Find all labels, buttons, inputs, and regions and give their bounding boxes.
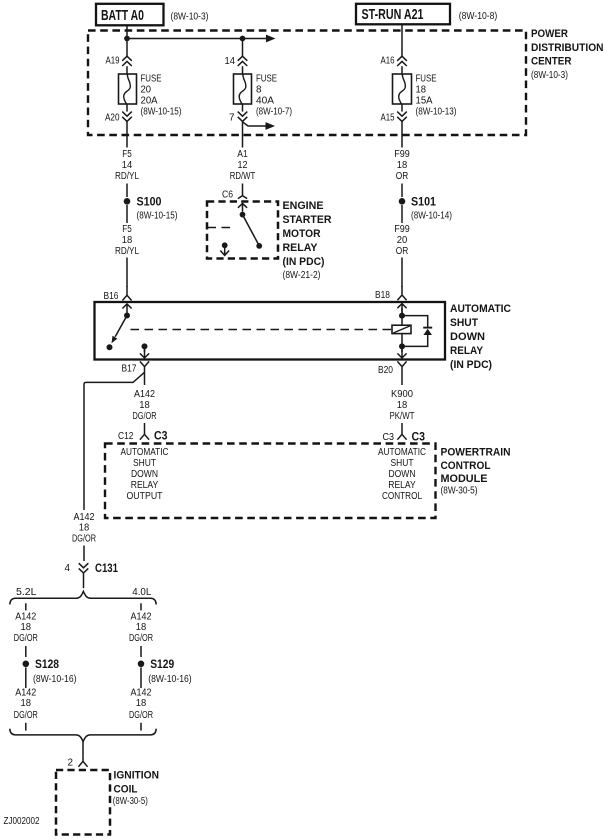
- svg-text:DOWN: DOWN: [450, 331, 485, 343]
- bus wire from BATT feed to fuse 8 column: [127, 38, 243, 40]
- svg-text:14: 14: [225, 56, 236, 67]
- svg-text:(8W-10-15): (8W-10-15): [137, 211, 178, 222]
- svg-text:14: 14: [122, 160, 133, 171]
- svg-text:(8W-10-3): (8W-10-3): [531, 70, 568, 81]
- connector B20 exit arrow and fork: [397, 350, 406, 385]
- ASD switch pivot dot: [124, 313, 130, 319]
- svg-text:B16: B16: [104, 291, 119, 302]
- svg-text:18: 18: [416, 85, 427, 96]
- svg-text:DG/OR: DG/OR: [14, 710, 38, 721]
- fuse F8 element: [239, 74, 246, 104]
- fuse F18 body: [393, 74, 412, 104]
- starter relay switch arm: [243, 215, 259, 245]
- svg-text:DOWN: DOWN: [131, 469, 158, 480]
- svg-text:(IN PDC): (IN PDC): [450, 359, 492, 371]
- fuse F20 body: [119, 74, 137, 104]
- svg-text:CONTROL: CONTROL: [382, 491, 422, 502]
- svg-text:AUTOMATIC: AUTOMATIC: [450, 303, 511, 315]
- connector B16 into ASD relay: [122, 286, 131, 313]
- wire code F5 18 RD/YL: [115, 205, 139, 257]
- svg-text:C6: C6: [222, 190, 233, 201]
- svg-text:(IN PDC): (IN PDC): [283, 256, 325, 268]
- wire A19 to fuse 20: [126, 66, 128, 74]
- connector C3 fork: [397, 434, 406, 439]
- svg-text:B18: B18: [375, 290, 390, 301]
- junction dot at BATT A0 feed: [124, 36, 130, 42]
- svg-text:15A: 15A: [416, 96, 433, 107]
- svg-text:C131: C131: [95, 563, 118, 575]
- wire A16 to fuse 18: [401, 66, 403, 74]
- wire stub to splice S129: [140, 646, 142, 657]
- svg-text:B20: B20: [378, 365, 393, 376]
- wire code K900 18 PK/WT: [390, 389, 415, 422]
- svg-text:POWERTRAIN: POWERTRAIN: [441, 447, 511, 459]
- svg-text:7: 7: [229, 113, 235, 124]
- 4.0L branch wire stub: [140, 603, 142, 610]
- svg-text:S101: S101: [411, 197, 437, 209]
- svg-text:STARTER: STARTER: [283, 214, 332, 226]
- ignition coil dashed box: [56, 770, 110, 835]
- svg-text:(8W-10-16): (8W-10-16): [33, 674, 77, 685]
- wire merge to ignition coil: [82, 741, 84, 755]
- svg-text:RELAY: RELAY: [388, 480, 416, 491]
- connector C12 fork: [140, 434, 149, 439]
- branch arrow to starter feed: [243, 122, 276, 130]
- starter relay ground arrow: [220, 245, 229, 255]
- bus arrow continuing right: [243, 35, 276, 43]
- svg-text:18: 18: [21, 622, 32, 633]
- powertrain control module dashed box: [105, 444, 436, 519]
- svg-text:MODULE: MODULE: [441, 473, 488, 485]
- svg-text:4: 4: [65, 563, 71, 574]
- svg-text:IGNITION: IGNITION: [114, 770, 160, 782]
- svg-text:C12: C12: [118, 431, 134, 442]
- svg-text:5.2L: 5.2L: [16, 587, 37, 598]
- svg-text:A142: A142: [134, 389, 155, 400]
- svg-text:RD/WT: RD/WT: [230, 171, 256, 182]
- splice S128 dot: [23, 661, 30, 668]
- svg-text:20A: 20A: [141, 96, 158, 107]
- svg-text:C3: C3: [383, 432, 395, 443]
- wire to PCM C3: [401, 423, 403, 434]
- svg-text:18: 18: [397, 160, 408, 171]
- branch wire to ignition coil feed: [84, 372, 145, 510]
- svg-text:CENTER: CENTER: [531, 56, 572, 68]
- wire stub to splice S128: [25, 646, 27, 657]
- wire stub below S129: [140, 668, 142, 689]
- svg-text:F5: F5: [122, 149, 132, 160]
- svg-text:18: 18: [397, 400, 408, 411]
- wire to splice S100: [126, 184, 128, 198]
- starter relay label: [283, 200, 332, 268]
- wire code A142 18 DG/OR 5.2L: [14, 612, 38, 645]
- splice S101 dot: [399, 198, 406, 205]
- svg-text:ENGINE: ENGINE: [283, 200, 324, 212]
- svg-text:ZJ002002: ZJ002002: [4, 816, 40, 827]
- splice S100 dot: [124, 198, 131, 205]
- svg-text:A142: A142: [15, 688, 36, 699]
- svg-text:F99: F99: [394, 149, 410, 160]
- svg-text:18: 18: [136, 698, 147, 709]
- svg-text:OUTPUT: OUTPUT: [127, 491, 163, 502]
- svg-text:B17: B17: [122, 364, 137, 375]
- svg-text:(8W-30-5): (8W-30-5): [441, 486, 478, 497]
- ASD coil junction dot bottom: [399, 343, 405, 349]
- svg-text:(8W-30-5): (8W-30-5): [113, 796, 148, 807]
- wire to PCM C12: [144, 423, 146, 434]
- svg-text:FUSE: FUSE: [141, 74, 162, 85]
- ASD relay label: [450, 303, 511, 371]
- svg-text:OR: OR: [396, 171, 409, 182]
- svg-text:A15: A15: [381, 113, 395, 124]
- fuse F8 body: [234, 74, 252, 104]
- wire 14 to fuse 8: [242, 66, 244, 74]
- wire C131 to engine split: [83, 574, 85, 589]
- splice S129 dot: [138, 661, 145, 668]
- wire OR down to ASD relay B18: [401, 258, 403, 288]
- wire B18 dot to coil: [401, 308, 403, 326]
- ASD relay coil: [392, 325, 411, 333]
- wire code A1 12 RD/WT: [230, 149, 256, 182]
- svg-text:RD/YL: RD/YL: [115, 171, 139, 182]
- starter relay switch pivot dot: [240, 212, 246, 218]
- 5.2L wire stub to merge: [25, 723, 27, 731]
- svg-text:(8W-10-8): (8W-10-8): [459, 11, 498, 22]
- svg-text:ST-RUN A21: ST-RUN A21: [362, 7, 424, 23]
- wire contact to B17 exit: [144, 346, 146, 352]
- PDC label POWER DISTRIBUTION CENTER: [531, 28, 604, 68]
- power feed box ST-RUN A21: [356, 4, 450, 25]
- connector A20: [122, 112, 132, 122]
- svg-text:(8W-10-14): (8W-10-14): [411, 211, 452, 222]
- starter relay switch contact dot: [256, 243, 262, 249]
- wire RD/YL down to ASD relay B16: [126, 258, 128, 288]
- starter relay coil feed arrow: [238, 203, 247, 211]
- svg-text:POWER: POWER: [531, 28, 568, 40]
- wire code F99 18 OR: [394, 149, 410, 182]
- svg-text:S128: S128: [35, 659, 60, 671]
- svg-text:(8W-10-7): (8W-10-7): [256, 107, 292, 118]
- wire A15 out of PDC: [401, 122, 403, 148]
- svg-text:A16: A16: [381, 56, 395, 67]
- svg-text:2: 2: [68, 758, 74, 769]
- engine starter motor relay dashed box: [207, 202, 278, 259]
- connector 2 fork: [78, 756, 87, 767]
- starter relay ground contact dot: [222, 242, 228, 248]
- wire to splice S101: [401, 184, 403, 198]
- svg-text:RELAY: RELAY: [283, 242, 319, 254]
- svg-text:RELAY: RELAY: [450, 345, 484, 357]
- svg-text:OR: OR: [396, 246, 409, 257]
- wire to C6 with fork: [238, 184, 247, 199]
- wire pin 7 out of PDC: [242, 122, 244, 148]
- automatic shut down relay box: [95, 302, 446, 360]
- svg-text:(8W-10-13): (8W-10-13): [416, 107, 457, 118]
- svg-text:FUSE: FUSE: [256, 74, 277, 85]
- svg-text:COIL: COIL: [114, 784, 138, 796]
- svg-text:A1: A1: [237, 149, 248, 160]
- wire code A142 18 DG/OR below S129: [129, 688, 153, 722]
- connector 7: [238, 112, 248, 122]
- svg-text:18: 18: [139, 400, 150, 411]
- wire stub below S128: [25, 668, 27, 689]
- svg-text:FUSE: FUSE: [416, 74, 437, 85]
- PCM label POWERTRAIN CONTROL MODULE: [441, 447, 511, 486]
- connector A15: [397, 112, 407, 122]
- svg-text:DG/OR: DG/OR: [129, 633, 153, 644]
- connector C131 chevrons: [79, 563, 89, 573]
- Power Distribution Center dashed box: [88, 31, 526, 136]
- svg-text:C3: C3: [412, 432, 426, 444]
- ASD coil junction dot top: [399, 313, 405, 319]
- ASD switch open contact dot: [107, 344, 113, 350]
- wire code A142 18 DG/OR below S128: [14, 688, 38, 722]
- svg-text:SHUT: SHUT: [450, 317, 478, 329]
- svg-text:K900: K900: [391, 389, 413, 400]
- svg-text:8: 8: [256, 85, 262, 96]
- wire fuse F18 to A15: [401, 104, 403, 112]
- connector 14: [238, 56, 248, 66]
- wire code A142 18 DG/OR at B17: [133, 389, 157, 422]
- svg-text:A19: A19: [106, 56, 120, 67]
- wire fuse F20 to A20: [126, 104, 128, 112]
- svg-text:18: 18: [79, 523, 90, 534]
- 4.0L wire stub to merge: [140, 723, 142, 731]
- wire code F5 14 RD/YL: [115, 149, 139, 182]
- connector A16: [397, 56, 407, 66]
- wire code A142 18 DG/OR at coil feed: [72, 512, 96, 545]
- starter relay linkage dashes: [208, 227, 232, 229]
- branch merge brace: [10, 729, 156, 742]
- svg-text:BATT A0: BATT A0: [101, 8, 144, 24]
- wire fuse F8 to pin 7: [242, 104, 244, 112]
- svg-text:PK/WT: PK/WT: [390, 411, 415, 422]
- svg-text:DG/OR: DG/OR: [133, 411, 157, 422]
- fuse F20 element: [124, 74, 131, 104]
- svg-text:A142: A142: [131, 612, 152, 623]
- svg-text:DG/OR: DG/OR: [14, 633, 38, 644]
- svg-text:DG/OR: DG/OR: [72, 534, 96, 545]
- svg-text:12: 12: [238, 160, 248, 171]
- ASD output contact dot: [142, 343, 148, 349]
- svg-text:4.0L: 4.0L: [132, 587, 151, 598]
- svg-text:AUTOMATIC: AUTOMATIC: [378, 447, 426, 458]
- svg-text:18: 18: [136, 622, 147, 633]
- fuse F18 element: [399, 74, 406, 104]
- svg-text:S129: S129: [150, 659, 174, 671]
- ignition coil label: [114, 770, 160, 796]
- fuse F20 label: [141, 74, 162, 107]
- svg-text:18: 18: [122, 235, 133, 246]
- svg-text:C3: C3: [154, 431, 168, 443]
- svg-text:AUTOMATIC: AUTOMATIC: [121, 447, 169, 458]
- svg-text:(8W-10-3): (8W-10-3): [171, 12, 209, 23]
- wire from ST-RUN A21 into PDC: [401, 24, 403, 56]
- wire code A142 18 DG/OR 4.0L: [129, 612, 153, 645]
- connector A19: [122, 56, 132, 66]
- wire from BATT A0 into PDC: [126, 25, 128, 56]
- wire bus drop to fuse 8: [242, 39, 244, 57]
- fuse F18 label: [416, 74, 437, 107]
- svg-text:S100: S100: [137, 197, 162, 209]
- svg-text:F5: F5: [122, 224, 132, 235]
- svg-text:40A: 40A: [256, 96, 274, 107]
- junction dot at fuse 8 feed: [240, 36, 246, 42]
- svg-text:(8W-10-16): (8W-10-16): [148, 674, 192, 685]
- connector B17 exit arrow and fork: [140, 350, 149, 385]
- svg-text:MOTOR: MOTOR: [283, 228, 321, 240]
- svg-text:DISTRIBUTION: DISTRIBUTION: [531, 42, 604, 54]
- power feed box BATT A0: [96, 4, 164, 26]
- svg-text:A142: A142: [131, 688, 152, 699]
- engine type split brace: [10, 591, 156, 604]
- svg-text:18: 18: [21, 698, 32, 709]
- PCM pin function label right: [378, 447, 426, 502]
- svg-text:F99: F99: [394, 224, 410, 235]
- svg-text:(8W-21-2): (8W-21-2): [283, 270, 321, 281]
- connector B18 into ASD relay: [397, 286, 406, 313]
- svg-text:A20: A20: [105, 113, 120, 124]
- wire coil to B20 dot: [401, 333, 403, 352]
- ASD switch arm with arrowhead: [112, 316, 128, 344]
- fuse F8 label: [256, 74, 277, 107]
- wire to connector C131: [83, 546, 85, 562]
- svg-text:RELAY: RELAY: [131, 480, 159, 491]
- ASD relay linkage dashed line: [131, 329, 392, 331]
- svg-text:RD/YL: RD/YL: [115, 246, 139, 257]
- svg-text:A142: A142: [15, 612, 36, 623]
- svg-text:SHUT: SHUT: [133, 458, 156, 469]
- svg-text:(8W-10-15): (8W-10-15): [141, 107, 182, 118]
- PCM pin function label left: [121, 447, 169, 502]
- wire A20 out of PDC: [126, 122, 128, 148]
- svg-text:CONTROL: CONTROL: [441, 460, 491, 472]
- svg-text:20: 20: [397, 235, 408, 246]
- svg-text:SHUT: SHUT: [391, 458, 414, 469]
- clamp diode branch wire: [402, 316, 428, 347]
- clamp diode D1: [423, 328, 432, 335]
- svg-text:A142: A142: [74, 512, 95, 523]
- svg-text:20: 20: [141, 85, 152, 96]
- wire code F99 20 OR: [394, 205, 410, 257]
- svg-text:DG/OR: DG/OR: [129, 710, 153, 721]
- 5.2L branch wire stub: [25, 603, 27, 610]
- svg-text:DOWN: DOWN: [389, 469, 416, 480]
